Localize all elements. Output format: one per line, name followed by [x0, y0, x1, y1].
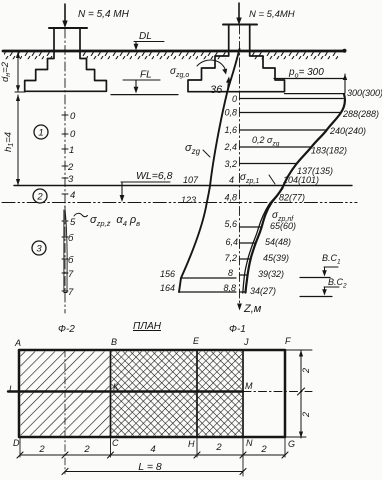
load arrow N left foundation: [64, 4, 66, 23]
right vertical dimension line: [300, 350, 302, 438]
svg-text:3,2: 3,2: [224, 159, 237, 169]
plan extension ticks below: [20, 437, 285, 457]
svg-text:L: L: [9, 384, 14, 394]
svg-text:240(240): 240(240): [329, 126, 366, 136]
svg-text:po= 300: po= 300: [288, 67, 324, 80]
footing base extension right: [285, 93, 345, 95]
svg-text:123: 123: [181, 195, 196, 205]
svg-text:39(32): 39(32): [258, 269, 284, 279]
soil layer circle 1: [34, 125, 48, 139]
svg-text:2: 2: [36, 192, 43, 203]
water level dash-dot line WL: [2, 202, 357, 204]
dimension h1=4: [17, 95, 19, 185]
plan top-right extension line: [286, 349, 312, 351]
plan inner vertical line J-N: [242, 350, 244, 437]
svg-text:8,8: 8,8: [223, 283, 236, 293]
left axis tick marks: [62, 115, 68, 291]
svg-text:4: 4: [229, 175, 234, 185]
svg-text:54(48): 54(48): [265, 237, 291, 247]
svg-text:4: 4: [150, 444, 155, 455]
dimension d_n=2: [17, 52, 19, 91]
svg-text:K: K: [113, 382, 120, 392]
svg-text:2: 2: [301, 412, 311, 418]
svg-text:б: б: [68, 255, 74, 266]
svg-text:7: 7: [68, 269, 74, 280]
svg-text:34(27): 34(27): [250, 286, 276, 296]
svg-text:FL: FL: [140, 70, 152, 81]
right foundation outline Ф-1: [188, 25, 285, 92]
svg-text:2: 2: [38, 444, 45, 455]
svg-text:Ф-2: Ф-2: [58, 324, 75, 335]
svg-text:3: 3: [36, 244, 42, 255]
depth grid lines right diagram: [240, 99, 344, 293]
svg-text:1: 1: [69, 145, 74, 156]
sigma_zg closing line at bottom: [179, 291, 236, 293]
sigma_zg closing line at BC1 level: [181, 277, 236, 279]
svg-text:300(300): 300(300): [347, 88, 382, 98]
svg-text:L = 8: L = 8: [138, 461, 162, 473]
plan hatch fill middle cells (cross): [112, 352, 243, 436]
left foundation outline Ф-2: [25, 28, 107, 91]
svg-text:104(101): 104(101): [283, 175, 319, 185]
svg-text:ПЛАН: ПЛАН: [133, 321, 162, 332]
sigma_zp,1 curve: [246, 94, 345, 293]
svg-text:0: 0: [70, 111, 76, 122]
soil layer circle 3: [32, 241, 46, 255]
svg-text:N = 5,4МН: N = 5,4МН: [249, 9, 295, 20]
plan F-2 axis vertical dash line: [64, 350, 66, 474]
BC1 level line: [300, 277, 330, 279]
svg-text:288(288): 288(288): [342, 109, 379, 119]
left foundation column cap: [49, 27, 87, 29]
svg-text:G: G: [288, 439, 295, 449]
svg-text:Ф-1: Ф-1: [229, 324, 246, 335]
left foundation axis (dash-dot): [64, 29, 66, 313]
svg-text:0,8: 0,8: [224, 108, 237, 118]
soil layer circle 2: [33, 189, 47, 203]
sigma_zp,z label with tilde leader: [74, 213, 88, 216]
svg-text:A: A: [14, 338, 21, 348]
svg-text:156: 156: [160, 269, 175, 279]
svg-text:2: 2: [301, 368, 311, 374]
right foundation column cap: [223, 24, 257, 26]
svg-text:183(182): 183(182): [311, 146, 347, 156]
svg-text:N = 5,4 МН: N = 5,4 МН: [78, 9, 130, 20]
svg-text:2: 2: [67, 162, 74, 173]
svg-text:H: H: [188, 439, 195, 449]
ground hatching: [4, 52, 53, 59]
svg-text:8: 8: [228, 268, 233, 278]
svg-text:F: F: [285, 336, 291, 346]
svg-text:WL=6,8: WL=6,8: [136, 170, 173, 182]
FL level line: [111, 94, 178, 96]
right foundation axis (dash-dot) with Z arrow: [239, 25, 241, 306]
svg-text:7,2: 7,2: [224, 253, 237, 263]
svg-text:E: E: [193, 336, 200, 346]
sigma_zp,nf curve: [243, 188, 283, 293]
bottom dimension line row 1: [20, 454, 285, 456]
svg-text:36: 36: [210, 84, 223, 96]
svg-text:0: 0: [232, 94, 237, 104]
BC2 level line: [300, 296, 332, 298]
layer boundary line: [14, 185, 352, 187]
svg-text:4: 4: [70, 190, 75, 201]
plan inner vertical line B-C: [110, 350, 112, 437]
svg-text:2,4: 2,4: [223, 142, 237, 152]
load arrow N right foundation: [238, 3, 240, 20]
svg-text:2: 2: [215, 442, 222, 453]
left axis tick labels: [67, 111, 76, 298]
svg-text:107: 107: [183, 175, 199, 185]
right diagram text labels: [160, 88, 382, 296]
svg-text:7: 7: [68, 287, 74, 298]
svg-text:5,6: 5,6: [224, 219, 237, 229]
svg-text:82(77): 82(77): [279, 193, 305, 203]
svg-text:45(39): 45(39): [263, 253, 289, 263]
svg-text:4,8: 4,8: [224, 193, 237, 203]
svg-text:Z,м: Z,м: [243, 303, 262, 315]
svg-text:3: 3: [68, 174, 74, 185]
svg-text:164: 164: [160, 283, 175, 293]
plan corner letters: [9, 336, 295, 449]
L=8 dimension line: [65, 471, 243, 473]
svg-text:J: J: [243, 337, 249, 347]
p0=300 overburden line: [274, 78, 345, 80]
plan middle axis line L-M: [8, 390, 243, 392]
svg-text:2: 2: [83, 444, 90, 455]
svg-text:0: 0: [70, 129, 76, 140]
left sliver stress diagram: [64, 206, 67, 293]
svg-text:N: N: [246, 438, 253, 448]
svg-text:h1=4: h1=4: [3, 132, 15, 152]
svg-text:dн=2: dн=2: [0, 61, 12, 82]
svg-text:DL: DL: [139, 31, 152, 42]
svg-text:D: D: [13, 438, 20, 448]
plan bottom-right extension line: [286, 436, 306, 438]
footing base extension left: [15, 91, 25, 93]
plan middle axis dash-dot extension: [243, 391, 312, 393]
svg-text:5: 5: [70, 217, 76, 228]
plan hatch fill left cell (diagonal): [21, 352, 110, 436]
svg-text:б: б: [68, 233, 74, 244]
svg-text:2: 2: [260, 444, 267, 455]
plan outer rectangle: [19, 350, 285, 437]
svg-text:M: M: [245, 381, 253, 391]
ground line: [3, 50, 344, 53]
svg-text:1,6: 1,6: [224, 125, 237, 135]
svg-text:6,4: 6,4: [225, 237, 238, 247]
plan inner vertical line E-H: [196, 350, 198, 437]
svg-text:1: 1: [38, 128, 43, 139]
sigma_zg curve: [179, 49, 240, 292]
bottom dimension labels 2 2 4 2 2: [38, 442, 267, 455]
svg-text:B: B: [111, 337, 117, 347]
svg-text:C: C: [112, 438, 119, 448]
